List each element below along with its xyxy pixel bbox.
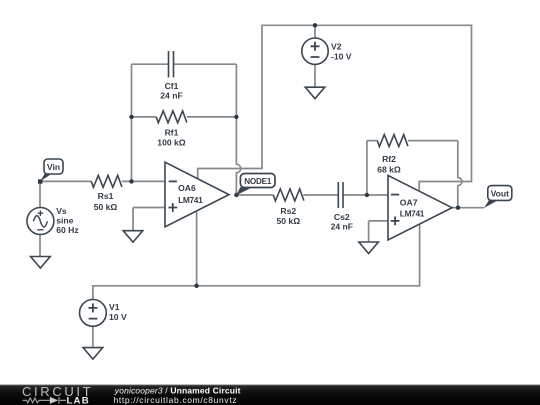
source V1 xyxy=(80,300,107,327)
svg-text:100 kΩ: 100 kΩ xyxy=(157,137,186,147)
resistor Rs1 xyxy=(91,175,122,187)
ground below OA6 plus input xyxy=(123,231,143,243)
ground below OA7 plus input xyxy=(359,242,379,254)
svg-text:50 kΩ: 50 kΩ xyxy=(276,216,300,226)
ground below Vs xyxy=(31,257,51,269)
wire Vs bottom stub xyxy=(39,235,41,257)
svg-text:Vout: Vout xyxy=(491,188,510,198)
svg-text:LM741: LM741 xyxy=(400,209,425,219)
wire input row Vin to OA6 minus xyxy=(40,180,165,182)
svg-text:Rs2: Rs2 xyxy=(280,206,296,216)
capacitor label Cf1 xyxy=(160,81,182,101)
resistor Rf1 xyxy=(156,111,187,123)
wire Rf2 row xyxy=(367,140,458,142)
wire OA7 plus input xyxy=(369,220,388,222)
junction node at Rf1 right xyxy=(234,115,238,119)
svg-text:24 nF: 24 nF xyxy=(160,90,182,100)
svg-text:OA7: OA7 xyxy=(400,198,418,208)
source Vs sine xyxy=(27,208,54,235)
wire Vs top stub xyxy=(39,181,41,207)
junction node at Rf2 left / OA7 minus xyxy=(365,193,369,197)
svg-text:24 nF: 24 nF xyxy=(331,222,353,232)
resistor label Rs2 xyxy=(276,206,300,226)
junction node bottom rail at OA6 V- xyxy=(194,284,198,288)
ground below V1 xyxy=(83,348,103,360)
wire OA6 plus ground stub xyxy=(132,208,134,231)
wire feedback middle row (Rf1) xyxy=(132,116,237,118)
wire feedback right vertical with hop xyxy=(236,64,240,195)
svg-text:Vs: Vs xyxy=(56,206,67,216)
resistor Rs2 xyxy=(273,189,304,201)
svg-text:V2: V2 xyxy=(331,42,342,52)
op-amp OA7 xyxy=(388,175,452,240)
svg-text:Vin: Vin xyxy=(47,162,60,172)
junction node at Rf1 left top xyxy=(129,115,133,119)
junction node at Rf1 left / input row xyxy=(129,179,133,183)
wire Rf2 right vertical with hop xyxy=(458,141,462,208)
svg-text:Rs1: Rs1 xyxy=(98,191,114,201)
resistor label Rf2 xyxy=(377,154,401,175)
svg-text:10 V: 10 V xyxy=(109,312,127,322)
svg-text:http://circuitlab.com/c8unvtz: http://circuitlab.com/c8unvtz xyxy=(114,395,238,405)
svg-text:V1: V1 xyxy=(109,302,120,312)
footer bar xyxy=(0,384,540,405)
resistor label Rf1 xyxy=(157,127,186,147)
wire feedback left vertical xyxy=(131,64,133,181)
capacitor Cf1 plates xyxy=(169,51,174,78)
wire Rf2 left vertical xyxy=(366,141,368,195)
svg-text:OA6: OA6 xyxy=(178,183,196,193)
svg-text:Rf1: Rf1 xyxy=(165,127,179,137)
resistor label Rs1 xyxy=(94,191,118,212)
svg-text:LM741: LM741 xyxy=(178,195,203,205)
svg-text:Rf2: Rf2 xyxy=(382,154,396,164)
wire NODE1 row to OA7 minus xyxy=(236,194,388,196)
source V2 xyxy=(302,38,328,64)
node label Vout xyxy=(484,186,512,208)
ground below V2 xyxy=(305,87,325,99)
wire feedback top row (Cf1) xyxy=(132,63,237,65)
svg-text:68 kΩ: 68 kΩ xyxy=(377,165,401,175)
capacitor label Cs2 xyxy=(331,212,353,232)
junction node at OA7 output xyxy=(456,206,460,210)
op-amp OA6 xyxy=(165,162,229,227)
svg-text:sine: sine xyxy=(56,215,73,225)
wire OA6 plus input xyxy=(133,207,165,209)
capacitor Cs2 plates xyxy=(338,182,343,208)
wire V2 bottom stub xyxy=(314,64,316,87)
svg-text:NODE1: NODE1 xyxy=(244,177,272,186)
footer logo resistor-diode glyph xyxy=(23,397,66,404)
svg-text:Cf1: Cf1 xyxy=(165,81,179,91)
wire bottom rail V1 to op-amp V- pins xyxy=(93,224,420,299)
wire OA7 plus ground stub xyxy=(368,221,370,242)
resistor Rf2 xyxy=(377,135,408,147)
wire OA6 V+ pin to top rail xyxy=(198,25,472,190)
svg-text:-10 V: -10 V xyxy=(331,52,352,62)
wire OA6 V- pin stub xyxy=(196,212,198,286)
node label Vin xyxy=(38,159,63,184)
wire V2 top stub xyxy=(314,25,316,38)
junction node top rail at V2 xyxy=(313,23,317,27)
svg-text:Cs2: Cs2 xyxy=(334,212,350,222)
svg-text:LAB: LAB xyxy=(67,396,90,405)
junction node NODE1 at OA6 output xyxy=(234,193,238,197)
wire V1 bottom stub xyxy=(92,326,94,347)
svg-text:50 kΩ: 50 kΩ xyxy=(94,202,118,212)
node label NODE1 xyxy=(236,174,275,196)
svg-text:60 Hz: 60 Hz xyxy=(56,225,78,235)
wire OA7 output to Vout xyxy=(451,207,484,209)
